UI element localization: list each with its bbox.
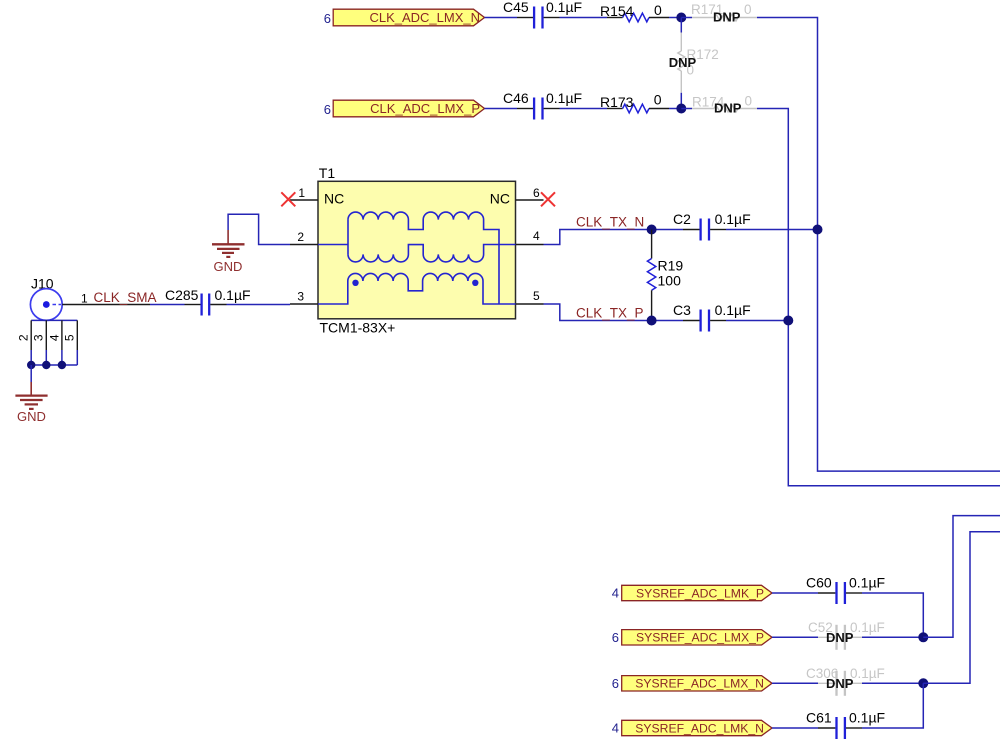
capacitor C285	[165, 287, 251, 316]
svg-text:C45: C45	[503, 0, 529, 15]
wire R173 to junction	[669, 108, 681, 110]
junction node shield a	[27, 361, 35, 369]
svg-text:C3: C3	[673, 302, 691, 318]
port SYSREF_ADC_LMX_P	[622, 630, 772, 645]
svg-text:NC: NC	[324, 191, 344, 207]
svg-text:0: 0	[744, 2, 752, 17]
pin 3	[290, 290, 318, 305]
pin 1	[290, 186, 318, 200]
pin 1 of J10	[62, 291, 150, 305]
junction node CLK_TX_P	[647, 316, 657, 326]
wire junction up to right exit	[923, 516, 1000, 638]
svg-text:0.1µF: 0.1µF	[546, 90, 582, 106]
wire pin2 to ground	[228, 214, 290, 244]
svg-text:DNP: DNP	[714, 101, 742, 116]
wire tag to C306	[772, 682, 818, 684]
shield ground bus wire	[31, 350, 77, 365]
svg-text:0: 0	[654, 2, 662, 18]
T1 left vertical of upper winding	[347, 220, 349, 255]
capacitor C3	[673, 302, 751, 332]
svg-text:6: 6	[324, 102, 331, 117]
svg-text:4: 4	[533, 229, 540, 243]
svg-text:3: 3	[32, 334, 46, 341]
svg-text:4: 4	[612, 586, 619, 601]
svg-text:0.1µF: 0.1µF	[849, 575, 885, 591]
wire junction up to right exit 2	[923, 532, 1000, 684]
resistor R174 (DNP, gray)	[681, 94, 757, 116]
resistor R173	[600, 92, 669, 113]
svg-text:C60: C60	[806, 575, 832, 591]
svg-text:3: 3	[297, 290, 304, 304]
wire tag to C52	[772, 636, 818, 638]
transformer T1 body	[318, 181, 516, 318]
wire C3 to vertical bus	[726, 320, 788, 322]
svg-text:C46: C46	[503, 90, 529, 106]
svg-text:NC: NC	[490, 191, 510, 207]
port SYSREF_ADC_LMK_N	[622, 720, 772, 735]
svg-text:6: 6	[612, 630, 619, 645]
T1 polarity dot left	[352, 280, 358, 286]
capacitor C46	[503, 90, 582, 120]
wire C45 to R154	[560, 17, 608, 19]
svg-text:6: 6	[612, 676, 619, 691]
wire tag to C45	[485, 17, 518, 19]
wire R174 right, down to C3 junction	[757, 109, 1000, 486]
wire tag to C60	[772, 592, 818, 594]
wire pin4 to junction	[544, 230, 684, 245]
svg-text:5: 5	[63, 334, 77, 341]
T1 polarity dot right	[472, 280, 478, 286]
svg-text:C285: C285	[165, 287, 199, 303]
svg-text:TCM1-83X+: TCM1-83X+	[320, 319, 396, 335]
resistor R172 (DNP, gray, vertical)	[669, 18, 719, 109]
svg-text:4: 4	[47, 334, 61, 341]
T1 midline left segment (pin 2 entry)	[318, 244, 348, 246]
svg-text:0.1µF: 0.1µF	[546, 0, 582, 15]
wire C285 to T1 pin 3	[227, 304, 291, 306]
capacitor C2	[673, 211, 751, 241]
port CLK_ADC_LMX_P	[333, 100, 484, 117]
svg-text:1: 1	[81, 291, 88, 305]
wire C61 to junction (up)	[862, 683, 923, 728]
pin 5	[516, 289, 544, 304]
svg-text:DNP: DNP	[669, 55, 697, 70]
svg-text:DNP: DNP	[826, 676, 854, 691]
svg-text:6: 6	[533, 186, 540, 200]
svg-text:0: 0	[654, 92, 662, 108]
svg-text:R173: R173	[600, 94, 634, 110]
capacitor C60	[806, 575, 885, 605]
port CLK_ADC_LMX_N	[333, 9, 484, 26]
wire tag to C61	[772, 727, 818, 729]
svg-text:0.1µF: 0.1µF	[850, 666, 885, 681]
port SYSREF_ADC_LMK_P	[622, 585, 772, 600]
wire R171 right, down to lower-right exit	[757, 18, 1000, 472]
svg-text:R154: R154	[600, 3, 634, 19]
svg-text:GND: GND	[17, 409, 46, 424]
wire C306 to junction	[862, 682, 923, 684]
wire C46 to R173	[560, 108, 608, 110]
svg-text:0.1µF: 0.1µF	[715, 211, 751, 227]
svg-text:CLK_ADC_LMX_P: CLK_ADC_LMX_P	[370, 101, 480, 116]
svg-text:DNP: DNP	[713, 10, 741, 25]
T1 winding row B (mid, bumps down)	[348, 245, 516, 262]
pin 4	[516, 229, 544, 245]
svg-text:4: 4	[612, 721, 619, 736]
svg-text:CLK_TX_P: CLK_TX_P	[576, 306, 644, 321]
wire to C285	[150, 304, 185, 306]
svg-text:T1: T1	[319, 165, 336, 181]
wire C60 to junction (down)	[862, 593, 923, 637]
capacitor C306 (DNP, gray)	[806, 666, 885, 696]
wire tag to C46	[485, 108, 518, 110]
resistor R171 (DNP, gray)	[681, 2, 757, 25]
svg-text:GND: GND	[214, 259, 243, 274]
wire to GND (J10)	[30, 365, 32, 382]
svg-text:DNP: DNP	[826, 630, 854, 645]
junction node shield c	[58, 361, 66, 369]
svg-text:SYSREF_ADC_LMX_N: SYSREF_ADC_LMX_N	[635, 677, 764, 691]
T1 winding row A (upper, bumps up)	[348, 212, 499, 304]
junction node shield b	[42, 361, 50, 369]
svg-text:0: 0	[745, 94, 753, 109]
no-connect X pin 6	[541, 192, 555, 206]
wire pin5 to junction	[544, 304, 684, 321]
no-connect X pin 1	[281, 192, 295, 206]
ground symbol GND (T1)	[212, 230, 245, 274]
svg-text:0.1µF: 0.1µF	[215, 287, 251, 303]
T1 winding row C (bottom, bumps up with dots)	[318, 273, 516, 304]
pin 2	[290, 230, 318, 245]
junction node sysref lower	[918, 678, 928, 688]
connector J10 SMA circle	[30, 289, 62, 321]
capacitor C52 (DNP, gray)	[808, 620, 885, 650]
junction node row2	[676, 104, 686, 114]
ground symbol GND (J10)	[15, 382, 47, 424]
svg-text:SYSREF_ADC_LMK_N: SYSREF_ADC_LMK_N	[635, 721, 764, 735]
svg-text:100: 100	[658, 273, 682, 289]
svg-text:SYSREF_ADC_LMK_P: SYSREF_ADC_LMK_P	[636, 586, 764, 600]
port SYSREF_ADC_LMX_N	[622, 676, 772, 691]
capacitor C45	[503, 0, 582, 29]
junction node CLK_TX_N	[647, 225, 657, 235]
junction node C3/bus	[783, 316, 793, 326]
svg-text:C61: C61	[806, 710, 832, 726]
svg-text:2: 2	[297, 230, 304, 244]
svg-text:SYSREF_ADC_LMX_P: SYSREF_ADC_LMX_P	[636, 631, 764, 645]
wire R154 to junction	[669, 17, 681, 19]
capacitor C61	[806, 710, 885, 740]
svg-text:0.1µF: 0.1µF	[849, 710, 885, 726]
svg-text:CLK_ADC_LMX_N: CLK_ADC_LMX_N	[369, 10, 480, 25]
svg-text:0.1µF: 0.1µF	[715, 302, 751, 318]
svg-text:6: 6	[324, 11, 331, 26]
resistor R154	[600, 2, 669, 22]
resistor R19 (vertical)	[647, 230, 683, 321]
J10 shield pins 2-5	[17, 320, 78, 350]
svg-text:C2: C2	[673, 211, 691, 227]
svg-text:R19: R19	[658, 258, 684, 274]
wire C52 to junction	[862, 636, 923, 638]
pin 6	[516, 186, 544, 200]
svg-text:2: 2	[17, 334, 31, 341]
junction node C2/bus	[813, 225, 823, 235]
svg-text:CLK_SMA: CLK_SMA	[94, 290, 157, 305]
svg-text:CLK_TX_N: CLK_TX_N	[576, 215, 644, 230]
svg-text:1: 1	[298, 186, 305, 200]
junction node sysref upper	[918, 632, 928, 642]
wire C2 to vertical bus	[726, 229, 818, 231]
svg-text:0.1µF: 0.1µF	[850, 620, 885, 635]
junction node row1	[676, 13, 686, 23]
svg-text:5: 5	[533, 289, 540, 303]
